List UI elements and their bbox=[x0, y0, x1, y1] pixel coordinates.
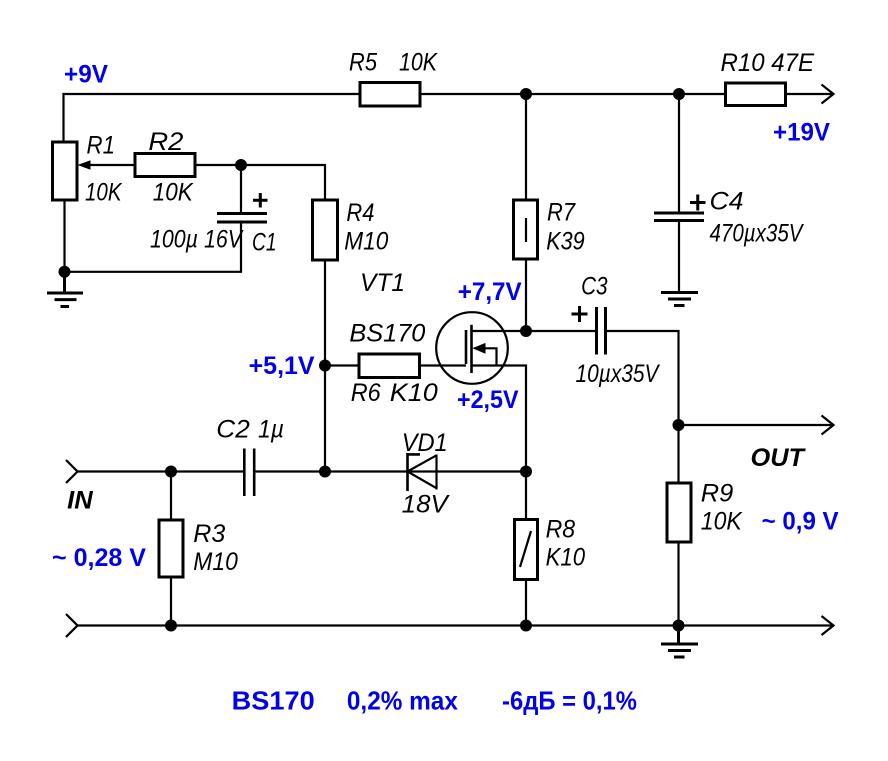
node R9 bottom / ground junction bbox=[673, 620, 685, 632]
node R3 bottom junction bbox=[165, 620, 177, 632]
wire R8 bottom lead bbox=[525, 580, 527, 626]
wire drain lead bbox=[472, 330, 527, 332]
wire C1 top lead bbox=[240, 165, 242, 212]
svg-text:100µ 16V: 100µ 16V bbox=[150, 226, 244, 254]
svg-text:0,2% max: 0,2% max bbox=[347, 685, 458, 715]
arrow bottom-right output bbox=[822, 616, 834, 635]
arrow OUT bbox=[822, 416, 834, 435]
svg-text:VT1: VT1 bbox=[360, 269, 405, 297]
node IN / R3 junction bbox=[165, 466, 177, 478]
svg-text:R8: R8 bbox=[546, 516, 576, 544]
svg-text:K10: K10 bbox=[390, 379, 438, 407]
node top rail / R7 bbox=[520, 88, 532, 100]
wire source lead down bbox=[472, 366, 527, 520]
svg-text:K39: K39 bbox=[546, 227, 585, 255]
node R2/C1/R4 junction bbox=[235, 159, 247, 171]
capacitor C2 bbox=[216, 416, 284, 496]
ground bottom right bbox=[661, 626, 698, 658]
svg-text:10K: 10K bbox=[85, 179, 123, 207]
resistor R2 bbox=[135, 128, 195, 207]
wire C1 bottom lead bbox=[65, 224, 242, 272]
node R8 bottom junction bbox=[520, 620, 532, 632]
resistor R7 bbox=[514, 198, 585, 259]
node R1/C1/ground junction bbox=[59, 266, 71, 278]
svg-text:R6: R6 bbox=[351, 379, 381, 407]
svg-text:M10: M10 bbox=[193, 548, 238, 576]
wire top rail right bbox=[786, 93, 834, 95]
svg-text:R7: R7 bbox=[547, 198, 576, 226]
wire R6 right lead to gate bbox=[420, 364, 467, 366]
svg-text:M10: M10 bbox=[344, 227, 388, 255]
wire R1 bottom lead bbox=[63, 200, 65, 272]
wire R7 top lead bbox=[525, 94, 527, 200]
capacitor C3 bbox=[572, 273, 661, 388]
resistor R6 bbox=[351, 354, 438, 407]
resistor R5 bbox=[349, 49, 438, 107]
wire OUT bbox=[679, 424, 834, 426]
capacitor C4 bbox=[654, 188, 804, 248]
svg-text:R5: R5 bbox=[349, 49, 377, 77]
ground under C4 bbox=[661, 293, 698, 306]
arrow +19V output bbox=[822, 85, 834, 104]
svg-text:IN: IN bbox=[67, 487, 93, 515]
svg-text:1µ: 1µ bbox=[258, 416, 284, 444]
wire bottom rail bbox=[76, 624, 833, 626]
diode VD1 bbox=[402, 429, 450, 519]
transistor VT1 bbox=[349, 269, 507, 384]
resistor R8 bbox=[515, 516, 586, 580]
wire C2 to VD1 bbox=[255, 470, 527, 472]
svg-text:+19V: +19V bbox=[773, 119, 830, 147]
svg-text:10K: 10K bbox=[701, 508, 743, 536]
svg-text:10µx35V: 10µx35V bbox=[576, 360, 661, 388]
svg-text:~ 0,9 V: ~ 0,9 V bbox=[762, 508, 839, 536]
node +5,1V junction bbox=[319, 360, 331, 372]
resistor R1 potentiometer bbox=[53, 132, 123, 207]
arrow IN input bbox=[66, 460, 78, 483]
wire C4 bottom lead bbox=[678, 222, 680, 293]
node drain / R7 / C3 bbox=[520, 325, 532, 337]
wire R9 bottom lead bbox=[677, 543, 679, 626]
svg-text:10K: 10K bbox=[399, 49, 438, 77]
svg-text:R9: R9 bbox=[701, 480, 734, 508]
resistor R9 bbox=[667, 480, 743, 543]
svg-text:C2: C2 bbox=[216, 416, 250, 444]
wire IN to C2 bbox=[76, 470, 243, 472]
wire R6 left lead bbox=[325, 364, 359, 366]
svg-text:~ 0,28 V: ~ 0,28 V bbox=[52, 544, 146, 572]
svg-text:C3: C3 bbox=[581, 273, 608, 301]
resistor R10 bbox=[721, 49, 815, 106]
svg-text:K10: K10 bbox=[546, 544, 586, 572]
capacitor C1 bbox=[150, 193, 277, 257]
svg-text:BS170: BS170 bbox=[232, 685, 315, 715]
wire R3 leads bbox=[170, 472, 172, 626]
node VD1 / R8 / source junction bbox=[520, 466, 532, 478]
svg-text:R2: R2 bbox=[148, 128, 183, 156]
svg-text:C4: C4 bbox=[710, 188, 744, 216]
svg-text:OUT: OUT bbox=[751, 444, 807, 472]
ground left bbox=[47, 272, 83, 307]
svg-text:R10 47E: R10 47E bbox=[721, 49, 815, 77]
wire R4 bottom to IN row bbox=[324, 260, 326, 472]
svg-text:10K: 10K bbox=[153, 179, 194, 207]
svg-text:470µx35V: 470µx35V bbox=[710, 219, 805, 247]
arrow bottom-left input bbox=[66, 614, 78, 637]
wire R9 top lead bbox=[677, 425, 679, 483]
svg-text:+9V: +9V bbox=[64, 61, 108, 89]
wiper arrow of R1 bbox=[78, 160, 136, 170]
wire top rail middle bbox=[420, 93, 726, 95]
wire top rail left bbox=[64, 94, 361, 142]
svg-text:-6дБ = 0,1%: -6дБ = 0,1% bbox=[502, 685, 637, 715]
svg-text:BS170: BS170 bbox=[349, 320, 425, 348]
wire node to R4 top bbox=[241, 165, 325, 200]
svg-text:C1: C1 bbox=[252, 229, 277, 257]
svg-text:18V: 18V bbox=[402, 490, 450, 518]
node C2 / R4 branch junction bbox=[319, 466, 331, 478]
svg-text:R3: R3 bbox=[193, 520, 225, 548]
svg-text:+2,5V: +2,5V bbox=[457, 386, 519, 414]
svg-text:VD1: VD1 bbox=[402, 429, 448, 457]
wire C3 right lead bbox=[606, 331, 679, 425]
svg-text:R4: R4 bbox=[346, 199, 374, 227]
resistor R4 bbox=[313, 199, 389, 260]
svg-text:+7,7V: +7,7V bbox=[458, 278, 522, 306]
svg-text:R1: R1 bbox=[87, 132, 116, 160]
node C3 / R9 / OUT bbox=[673, 419, 685, 431]
node top rail / C4 bbox=[673, 88, 685, 100]
wire C4 top lead bbox=[678, 94, 680, 212]
wire node to C3 bbox=[526, 330, 597, 332]
resistor R3 bbox=[159, 520, 238, 577]
wire R2 to node bbox=[195, 164, 241, 166]
wire R7 bottom lead bbox=[525, 259, 527, 331]
svg-text:+5,1V: +5,1V bbox=[249, 352, 315, 380]
